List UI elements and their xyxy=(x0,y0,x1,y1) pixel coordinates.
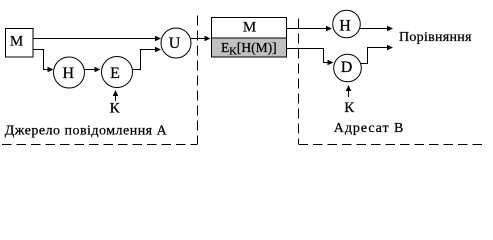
dashed border region B (left edge) xyxy=(298,19,300,145)
dashed border region A (bottom edge) xyxy=(2,144,198,146)
dashed border region A (right edge) xyxy=(197,16,199,145)
transmitted message block M over Ek[H(M)] xyxy=(212,18,287,58)
key K input to E xyxy=(110,90,121,117)
label region B: addressee xyxy=(334,121,404,136)
hash block H (receiver) xyxy=(333,10,361,38)
wire D to comparison xyxy=(361,45,394,64)
dashed border region B (bottom edge) xyxy=(299,144,483,146)
wire H (receiver) to comparison xyxy=(360,26,393,32)
svg-text:U: U xyxy=(169,35,181,52)
key K input to D xyxy=(344,85,355,116)
svg-text:К: К xyxy=(344,100,355,116)
wire message block to H (receiver) xyxy=(287,26,332,32)
svg-text:К: К xyxy=(110,101,121,117)
wire H to E xyxy=(85,67,101,73)
decrypt block D xyxy=(334,54,362,82)
label comparison xyxy=(399,30,472,45)
wire M to U xyxy=(33,36,161,42)
svg-text:Адресат В: Адресат В xyxy=(334,121,404,136)
label region A: message source xyxy=(5,123,168,138)
wire E to U xyxy=(133,47,162,70)
wire U to message block xyxy=(191,36,211,42)
svg-text:H: H xyxy=(339,18,351,35)
svg-text:Джерело повідомлення А: Джерело повідомлення А xyxy=(5,123,168,138)
svg-text:M: M xyxy=(10,34,23,50)
svg-text:H: H xyxy=(63,65,75,82)
svg-text:M: M xyxy=(243,20,256,36)
encrypt block E xyxy=(102,57,133,88)
concatenation block U xyxy=(161,28,191,58)
svg-text:D: D xyxy=(341,59,353,76)
wire M to H xyxy=(33,50,54,73)
svg-text:E: E xyxy=(110,65,120,82)
hash block H (sender) xyxy=(54,57,85,88)
svg-text:Порівняння: Порівняння xyxy=(399,30,472,45)
block M (message source) xyxy=(6,29,34,58)
wire message block to D xyxy=(287,49,334,66)
